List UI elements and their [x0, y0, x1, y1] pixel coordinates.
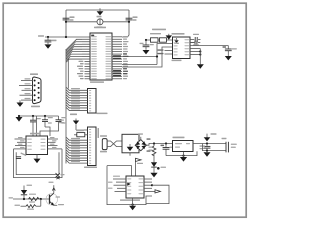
junction: [128, 21, 130, 23]
net label uC_P5V: [150, 29, 166, 35]
ground: [17, 100, 24, 107]
resistor R5: [15, 199, 41, 210]
junction: [40, 198, 42, 200]
capacitor C10: [16, 152, 27, 158]
junction: [18, 115, 46, 117]
U5 right pins: [144, 179, 153, 191]
ground: [129, 198, 136, 210]
wire gnd bus: [166, 151, 197, 155]
stub: [129, 153, 131, 156]
capacitor C4: [140, 40, 154, 50]
connector J3: [84, 127, 99, 168]
J3 wires fan: [66, 137, 88, 163]
wire AC cross: [107, 141, 122, 147]
capacitor C13: [222, 138, 237, 153]
capacitor C9: [40, 116, 66, 136]
capacitor C5: [190, 41, 200, 46]
J2 wires fan: [66, 87, 88, 110]
ground: [204, 151, 211, 157]
capacitor C12: [200, 144, 211, 151]
ground: [45, 44, 52, 48]
wire VCC top rail: [66, 9, 129, 11]
wire base line: [9, 197, 50, 199]
transistor Q1: [46, 182, 64, 206]
junction: [153, 142, 167, 144]
ground: [127, 141, 134, 151]
U1 right pins: [112, 36, 129, 79]
flag net: [152, 190, 160, 193]
power arrow: [166, 34, 172, 40]
wire TXD: [122, 56, 157, 58]
U1 left pins: [77, 39, 90, 79]
U2 left stubs: [158, 49, 173, 54]
op-amp U3: [26, 133, 48, 155]
wire right vertical: [122, 10, 129, 37]
wire riser: [156, 44, 173, 65]
junction: [132, 204, 134, 206]
junction: [65, 36, 67, 38]
wire loop top: [107, 166, 132, 176]
P1 wires: [19, 78, 33, 100]
op-amp U1 microcontroller: [90, 27, 112, 83]
junction: [145, 39, 147, 41]
capacitor C2: [126, 16, 138, 20]
diode D1: [21, 185, 32, 200]
wire shield loop outer: [14, 149, 63, 178]
U3 right pins: [48, 137, 63, 149]
ground: [34, 155, 41, 164]
op-amp U2 driver: [172, 33, 191, 61]
wire Vout rail: [193, 143, 226, 145]
resistor R1: [151, 38, 159, 42]
wire: [36, 116, 38, 136]
bridge rectifier BR1: [135, 133, 150, 151]
wire flag stub: [136, 158, 144, 176]
junction: [65, 21, 67, 23]
power arrow: [70, 114, 88, 131]
U2 lower right stubs: [190, 49, 201, 56]
wire bottom rail: [203, 144, 227, 151]
junction: [206, 150, 208, 152]
wire vertical bus2: [67, 58, 69, 89]
capacitor C1: [63, 16, 75, 20]
wire bus fan U1-left: [66, 39, 82, 62]
capacitor C11: [161, 144, 175, 156]
ground: [150, 173, 157, 178]
op-amp U4 regulator: [173, 137, 194, 152]
power arrow PWR1: [97, 8, 104, 15]
ground: [197, 64, 204, 68]
wire gnd drop: [199, 49, 201, 65]
op-amp U5: [120, 176, 144, 201]
capacitor C3: [45, 37, 57, 44]
wire DC rail: [146, 144, 172, 146]
resistor R4: [29, 194, 40, 203]
connector J2: [88, 89, 108, 115]
connector P1 DB9: [30, 73, 41, 107]
wire XTAL rail: [66, 21, 129, 23]
diode D2: [151, 162, 166, 173]
capacitor C6 polarized: [223, 46, 237, 56]
filter box FL1: [122, 134, 139, 153]
wire RXD: [122, 47, 173, 67]
net labels: [113, 55, 121, 76]
U5 left pins: [108, 176, 126, 192]
capacitor C8: [42, 116, 53, 136]
U2 pin caps: [190, 34, 201, 45]
wire loop bottom: [107, 166, 152, 205]
resistor R6: [149, 144, 156, 163]
capacitor C7: [30, 116, 41, 136]
jumper X: [56, 173, 65, 179]
junction: [182, 155, 184, 157]
connector J4: [100, 135, 107, 152]
ground: [143, 50, 150, 54]
power arrow: [204, 133, 217, 144]
wire T2IN: [122, 64, 157, 66]
crystal Y1: [97, 16, 104, 28]
net labels: [59, 120, 64, 124]
resistor R2: [160, 38, 167, 42]
wire V+: [190, 45, 228, 47]
wire loop right: [146, 185, 169, 203]
U3 left pins: [14, 137, 27, 149]
wire VCC row: [146, 39, 173, 41]
ground: [225, 56, 232, 60]
ground: [16, 117, 23, 122]
wire left vertical: [65, 10, 67, 37]
ground: [180, 152, 187, 162]
wire vertical bus: [65, 49, 67, 164]
wire V+ down: [227, 46, 229, 49]
wire analog rail: [19, 115, 59, 117]
junction: [47, 36, 49, 38]
resistor R3: [74, 130, 88, 137]
wire RST: [38, 35, 90, 37]
wire shield loop inner: [16, 152, 59, 174]
